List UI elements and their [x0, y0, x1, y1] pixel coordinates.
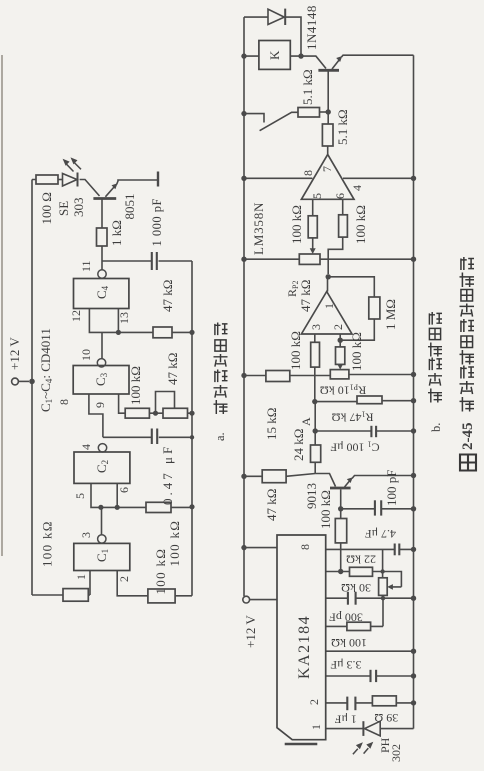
junction rail RP2 right	[411, 257, 416, 262]
svg-text:b.: b.	[429, 423, 443, 432]
svg-text:KA2184: KA2184	[296, 615, 313, 679]
pin 11 bubble	[98, 270, 106, 278]
svg-text:1 kΩ: 1 kΩ	[109, 220, 124, 246]
wire opamp2 pin8 supply	[244, 177, 312, 179]
svg-text:47 kΩ: 47 kΩ	[165, 353, 180, 385]
svg-text:+12 V: +12 V	[7, 337, 22, 370]
svg-text:2: 2	[307, 699, 321, 705]
svg-text:22 kΩ: 22 kΩ	[346, 553, 376, 567]
resistor 100k pin2	[336, 347, 345, 365]
junction rail 3.3uF	[411, 673, 416, 678]
junction rail gnd pin	[411, 649, 416, 654]
junction rail RP2 left	[241, 257, 246, 262]
wire RP2 net	[244, 258, 414, 260]
junction rail 47k C4	[189, 330, 194, 335]
svg-text:2: 2	[331, 324, 345, 330]
wire 24k bottom to 9013	[315, 462, 335, 486]
wire pin3 lead	[314, 334, 316, 342]
resistor 100k (C2 row)	[146, 502, 171, 512]
junction rail C2	[189, 504, 194, 509]
junction relay left	[241, 53, 246, 58]
resistor 100k pin5	[308, 216, 317, 238]
wire LED cathode to transistor collector	[80, 180, 100, 197]
wire 100k pin5 to RP2 wiper arrow	[312, 238, 314, 248]
svg-text:1: 1	[322, 303, 336, 309]
svg-text:303: 303	[71, 198, 86, 218]
svg-text:100 kΩ: 100 kΩ	[167, 520, 182, 567]
gate C3 box	[73, 366, 129, 395]
wire pin5 lead	[312, 199, 314, 216]
svg-text:100 kΩ: 100 kΩ	[153, 548, 168, 595]
wire 1k resistor to node, cap 1000pF net	[102, 246, 192, 596]
wire R1 net	[315, 400, 414, 403]
wire pin6 lead	[342, 199, 344, 215]
junction rail 47k	[241, 474, 246, 479]
resistor R1 47k	[357, 396, 382, 404]
op-amp U1b triangle	[301, 154, 354, 199]
resistor 47k recv	[262, 470, 286, 483]
potentiometer RP1	[330, 364, 349, 379]
svg-text:8: 8	[57, 399, 71, 405]
capacitor 100pF	[375, 500, 381, 515]
wire emitter to ground bar	[117, 180, 158, 185]
+12V terminal recv	[243, 596, 250, 603]
svg-text:47 kΩ: 47 kΩ	[264, 489, 279, 521]
wire C2 pins 5,6 net to rail	[91, 483, 192, 534]
wire +12V terminal to KA	[250, 599, 277, 601]
wire Q2 emitter to right rail	[342, 55, 414, 57]
wire 100pF net	[341, 508, 414, 510]
svg-text:100 kΩ: 100 kΩ	[289, 205, 304, 244]
junction rail R1	[411, 398, 416, 403]
resistor 47k (loop)	[163, 408, 188, 418]
wire pin6 100k to stage1 output	[328, 237, 343, 274]
wire 9013 base lead down	[340, 490, 342, 509]
resistor 22k	[350, 567, 373, 576]
junction osc	[153, 411, 158, 416]
svg-text:8: 8	[298, 544, 312, 550]
resistor 5.1k no2	[322, 124, 333, 146]
svg-text:4: 4	[79, 444, 93, 450]
junction switch	[241, 111, 246, 116]
wire C3 pins 8,9 oscillator net	[89, 394, 192, 437]
capacitor 1uF	[347, 697, 355, 711]
resistor 100k no6	[347, 622, 371, 630]
resistor 24k	[311, 445, 321, 462]
resistor 39ohm	[372, 696, 396, 706]
+12V rail left (transmitter)	[32, 180, 63, 596]
svg-text:300 pF: 300 pF	[329, 611, 363, 625]
+12V terminal	[12, 378, 19, 385]
svg-text:100 kΩ: 100 kΩ	[349, 332, 364, 371]
wire transistor base lead	[101, 199, 103, 229]
junction rail osc	[189, 411, 194, 416]
junction rail 4.7uF	[411, 547, 416, 552]
svg-text:a.: a.	[213, 432, 227, 441]
relay K box	[259, 41, 290, 70]
junction 22k right	[380, 569, 384, 573]
svg-text:5: 5	[310, 193, 324, 199]
capacitor 4.7uF	[395, 544, 400, 556]
pin 3 bubble	[98, 535, 106, 543]
svg-text:RP110 kΩ: RP110 kΩ	[320, 383, 366, 398]
junction rail 100pF	[411, 506, 416, 511]
svg-text:7: 7	[320, 166, 334, 172]
svg-text:100 kΩ: 100 kΩ	[353, 205, 368, 244]
pin 10 bubble	[97, 359, 105, 367]
wire opamp2 pin4 supply	[343, 177, 414, 179]
svg-text:1 μF: 1 μF	[334, 713, 356, 727]
svg-text:302: 302	[389, 744, 403, 762]
svg-text:100 kΩ: 100 kΩ	[40, 520, 55, 567]
resistor 100k (C1 right)	[148, 589, 175, 603]
ground bar KA	[285, 743, 318, 746]
svg-text:13: 13	[117, 312, 131, 324]
svg-text:5.1 kΩ: 5.1 kΩ	[300, 69, 315, 105]
capacitor 300pF	[348, 592, 356, 605]
wire KA left supply pin	[244, 547, 277, 549]
wire top to diode D1	[244, 16, 268, 18]
junction rail RP1	[411, 372, 416, 377]
potentiometer RP2	[299, 248, 320, 264]
junction rail 39ohm	[411, 700, 416, 705]
svg-text:2: 2	[117, 576, 131, 582]
svg-text:9: 9	[93, 402, 107, 408]
wire 9013 emitter to rail	[352, 476, 414, 479]
svg-text:9013: 9013	[304, 483, 319, 509]
svg-text:15 kΩ: 15 kΩ	[264, 408, 279, 440]
transistor Q2	[318, 56, 342, 70]
caption b: hong wai jie shou dian lu	[428, 312, 443, 432]
gate C2 box	[74, 452, 130, 483]
wire Q2 base lead	[327, 72, 329, 113]
resistor 100ohm	[36, 175, 58, 184]
svg-text:C1 100 μF: C1 100 μF	[330, 440, 379, 455]
svg-text:100 kΩ: 100 kΩ	[288, 331, 303, 370]
IC KA2184 box	[277, 535, 326, 740]
svg-text:100 pF: 100 pF	[384, 470, 399, 506]
svg-text:A: A	[299, 417, 313, 426]
svg-text:8051: 8051	[122, 194, 137, 220]
svg-text:SE: SE	[56, 201, 71, 216]
svg-text:5: 5	[73, 493, 87, 499]
junction Q2 base	[326, 109, 331, 114]
svg-text:1 MΩ: 1 MΩ	[383, 299, 398, 330]
wire 100k no5	[340, 509, 342, 572]
junction C2 out	[98, 505, 103, 510]
svg-text:8: 8	[301, 170, 315, 176]
svg-text:C1~C4: CD4011: C1~C4: CD4011	[38, 328, 54, 412]
junction stage1 out	[326, 274, 331, 279]
junction C2 pin6	[115, 505, 120, 510]
svg-text:100 kΩ: 100 kΩ	[128, 366, 143, 405]
LED SE303	[63, 173, 78, 187]
junction rail 15k	[241, 373, 246, 378]
rail left (receiver +12V)	[243, 17, 245, 596]
wire 100k no6 net	[326, 598, 383, 626]
svg-text:100 kΩ: 100 kΩ	[318, 490, 333, 529]
wire base node down through 5.1k no2 to opamp	[327, 112, 330, 154]
svg-text:1: 1	[74, 574, 88, 580]
wire C1 100uF net	[315, 430, 413, 432]
resistor 100k no5	[335, 519, 346, 543]
wire stage1 output node and 1M feedback top	[328, 277, 375, 297]
capacitor 0.47uF	[152, 429, 157, 445]
potentiometer 30k trimmer	[379, 578, 393, 596]
op-amp U1a triangle	[301, 292, 352, 335]
wire C3 pin9 to 100k	[119, 394, 126, 413]
junction node A cap	[313, 428, 318, 433]
svg-text:6: 6	[333, 193, 347, 199]
svg-text:3: 3	[309, 324, 323, 330]
wire 1uF 39ohm net	[326, 702, 414, 704]
wire 1M bottom to pin2	[340, 319, 374, 340]
gate C1 box	[74, 543, 130, 570]
junction pin2	[338, 338, 343, 343]
wire pin2 100k to RP1 wiper	[339, 340, 341, 367]
pin 4 bubble	[98, 444, 106, 452]
resistor R 1k	[97, 228, 108, 246]
svg-text:3: 3	[79, 532, 93, 538]
photodiode PH302	[363, 721, 380, 736]
resistor 100k (oscillator)	[125, 408, 149, 418]
wire 5.1k to base node	[320, 111, 329, 113]
wire C4 pins 12,13 to 47k net	[89, 309, 192, 359]
junction 300pF	[381, 596, 385, 600]
capacitor C1 100uF	[371, 426, 376, 437]
wire pin3 100k down to node A	[314, 367, 316, 402]
wire 47k recv net	[244, 474, 315, 477]
wire gnd pin direct net	[326, 650, 414, 652]
wire resistor 100ohm to LED	[58, 179, 63, 181]
junction 9013 base	[338, 506, 343, 511]
junction pin13	[116, 330, 121, 335]
wire 100k to 47k junction loop	[149, 392, 192, 414]
wire 30k bottom	[382, 595, 384, 598]
page edge line	[1, 55, 3, 556]
svg-text:5.1 kΩ: 5.1 kΩ	[335, 109, 350, 145]
wire KA pin top-right net	[326, 548, 414, 550]
svg-text:39 Ω: 39 Ω	[374, 711, 398, 725]
resistor 1M	[369, 297, 380, 319]
svg-text:11: 11	[79, 260, 93, 272]
caption figure 2-45 title	[460, 257, 477, 471]
junction rail 300pF	[411, 596, 416, 601]
svg-text:6: 6	[117, 487, 131, 493]
svg-text:1 000 pF: 1 000 pF	[150, 198, 164, 246]
resistor 100k pin3	[311, 342, 320, 367]
junction rail KA left	[241, 545, 246, 550]
wire switch com	[244, 114, 264, 123]
junction rail pin8	[241, 176, 246, 181]
LED emission arrows	[63, 157, 81, 171]
wire pin1 photodiode net	[326, 728, 414, 730]
capacitor 1000pF	[152, 252, 157, 270]
junction node A top	[312, 399, 317, 404]
transistor Q3 9013	[330, 477, 353, 488]
junction rail C1	[411, 428, 416, 433]
svg-text:30 kΩ: 30 kΩ	[341, 581, 371, 595]
ground bar (emitter)	[157, 172, 159, 187]
resistor 100k pin6	[339, 215, 348, 237]
junction 22k	[338, 569, 343, 574]
resistor 100k (C1 left)	[63, 589, 88, 602]
svg-text:LM358N: LM358N	[251, 202, 266, 255]
svg-text:100 Ω: 100 Ω	[39, 192, 54, 224]
svg-text:4.7 μF: 4.7 μF	[365, 527, 396, 541]
svg-text:12: 12	[69, 310, 83, 322]
wire 15k RP1 net	[244, 375, 414, 376]
switch arm	[260, 112, 298, 130]
diode D1 1N4148	[268, 9, 285, 25]
svg-text:+12 V: +12 V	[243, 615, 258, 648]
svg-text:K: K	[267, 50, 282, 60]
junction +12V	[29, 379, 35, 385]
resistor 15k	[266, 371, 290, 382]
wire diode cathode down to relay node	[286, 17, 302, 56]
svg-text:1: 1	[309, 724, 323, 730]
transistor Q1 8051	[93, 183, 117, 198]
svg-text:47 kΩ: 47 kΩ	[160, 280, 175, 312]
resistor 5.1k no1	[298, 108, 320, 118]
caption a: hong wai fa she dian lu	[213, 323, 228, 442]
svg-text:47 kΩ: 47 kΩ	[298, 280, 313, 312]
svg-text:1N4148: 1N4148	[304, 5, 319, 50]
svg-text:0.47 μF: 0.47 μF	[160, 444, 175, 505]
svg-text:100 kΩ: 100 kΩ	[331, 636, 367, 650]
svg-text:4: 4	[350, 185, 364, 191]
wire relay K leads	[244, 55, 301, 57]
junction relay right	[298, 53, 303, 58]
resistor 47k (C4 row)	[153, 327, 172, 338]
wire 22k net	[326, 549, 402, 587]
svg-text:2-45: 2-45	[460, 423, 476, 451]
svg-text:10: 10	[79, 349, 93, 361]
junction rail 0.47uF	[190, 435, 194, 439]
svg-text:R147 kΩ: R147 kΩ	[331, 410, 373, 425]
rail right (receiver gnd)	[413, 55, 415, 728]
junction rail pin4	[411, 176, 416, 181]
junction rail 9013 emitter	[411, 473, 416, 478]
wire 3.3uF net	[326, 675, 414, 677]
svg-text:24 kΩ: 24 kΩ	[291, 429, 306, 461]
wire C1 pins 1,2 bottom nets	[88, 571, 192, 596]
photodiode arrows	[353, 742, 373, 755]
capacitor 3.3uF	[371, 670, 377, 682]
svg-text:3.3 μF: 3.3 μF	[330, 658, 361, 672]
wire node A down	[314, 402, 316, 445]
gate C4 box	[74, 279, 129, 309]
wire 300pF net	[326, 597, 414, 599]
wire relay node to transistor collector	[301, 56, 326, 68]
